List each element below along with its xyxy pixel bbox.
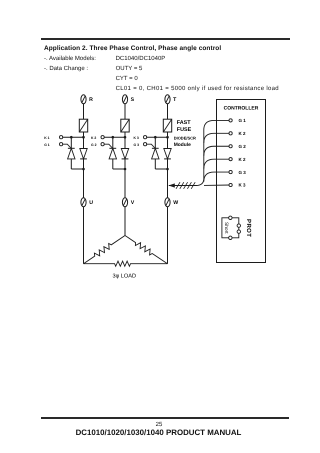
svg-text:V: V xyxy=(131,200,135,206)
svg-text:G 3: G 3 xyxy=(134,143,140,147)
terminal K3 xyxy=(144,136,147,139)
resistor load U-V leg xyxy=(84,236,126,264)
terminal U xyxy=(81,198,86,207)
wire node to diode D2 xyxy=(124,137,126,148)
resistor load U-W leg xyxy=(84,261,168,266)
junction dot bottom U xyxy=(82,168,85,171)
svg-text:K 2: K 2 xyxy=(239,157,247,162)
svg-text:PROT: PROT xyxy=(245,219,252,237)
svg-text:G 1: G 1 xyxy=(239,118,247,123)
body text rows xyxy=(44,56,96,62)
fuse F1 xyxy=(79,119,87,132)
wire junction to thyristor Q3 xyxy=(154,137,156,148)
svg-text:Module: Module xyxy=(174,142,191,148)
terminal K1 xyxy=(60,136,63,139)
wire node to diode D1 xyxy=(83,137,85,148)
terminal PROT 1 xyxy=(237,224,240,227)
wire Q3 to bottom connector xyxy=(154,159,156,169)
fuse F3 xyxy=(163,119,171,132)
diode D1 xyxy=(80,149,87,159)
junction node dot phase R xyxy=(82,136,85,139)
svg-text:CONTROLLER: CONTROLLER xyxy=(224,106,259,112)
terminal controller G3 xyxy=(229,170,232,173)
wire W to load xyxy=(167,207,169,264)
svg-text:K 2: K 2 xyxy=(239,131,247,136)
terminal T xyxy=(165,95,170,104)
terminal R xyxy=(81,95,86,104)
terminal controller K3 xyxy=(229,183,232,186)
svg-text:DIODE/SCR: DIODE/SCR xyxy=(174,135,196,140)
thyristor Q3 xyxy=(152,148,159,159)
svg-text:FAST: FAST xyxy=(177,120,191,126)
terminal S xyxy=(122,95,127,104)
wire module to terminal W xyxy=(167,169,169,198)
terminal controller K2 xyxy=(229,132,232,135)
wire gate G3 to thyristor Q3 xyxy=(147,144,155,148)
bottom rule xyxy=(41,417,289,418)
terminal short bottom xyxy=(229,236,232,239)
wire controller G3 cable xyxy=(204,172,231,182)
wire F3 to node xyxy=(167,132,169,137)
wire bottom connector W xyxy=(155,168,167,170)
thyristor Q1 xyxy=(68,148,75,159)
short link box xyxy=(222,218,239,238)
wire bottom connector V xyxy=(113,168,125,170)
wire D1 down to node U xyxy=(83,159,85,169)
fuse F2 xyxy=(121,119,129,132)
wire junction to thyristor Q2 xyxy=(112,137,114,148)
junction node dot phase T xyxy=(166,136,169,139)
terminal PROT 2 xyxy=(237,230,240,233)
svg-text:K 2: K 2 xyxy=(91,136,96,140)
terminal G3 xyxy=(144,143,147,146)
title xyxy=(44,46,221,53)
svg-text:G 2: G 2 xyxy=(239,144,247,149)
controller box xyxy=(217,100,266,263)
wire module to terminal V xyxy=(124,169,126,198)
svg-text:R: R xyxy=(89,97,93,103)
terminal G2 xyxy=(101,143,104,146)
label FAST FUSE xyxy=(177,120,192,133)
svg-text:G 1: G 1 xyxy=(44,143,50,147)
wire controller K2 cable xyxy=(204,133,231,143)
wire T to fuse F3 xyxy=(167,104,169,119)
thyristor Q2 xyxy=(109,148,116,159)
cable hatch marks xyxy=(176,182,195,189)
terminal V xyxy=(122,198,127,207)
svg-text:T: T xyxy=(173,97,177,103)
terminal K2 xyxy=(101,136,104,139)
wire V to load xyxy=(124,207,126,236)
wire D3 down to node W xyxy=(167,159,169,169)
wire junction to thyristor Q1 xyxy=(70,137,72,148)
terminal controller G2 xyxy=(229,145,232,148)
page number xyxy=(0,422,318,428)
wire node to diode D3 xyxy=(167,137,169,148)
junction dot bottom W xyxy=(166,168,169,171)
terminal controller K2 xyxy=(229,158,232,161)
diode D2 xyxy=(121,149,128,159)
wire controller G1 cable xyxy=(169,120,231,185)
svg-text:3φ LOAD: 3φ LOAD xyxy=(113,274,137,280)
wire module to terminal U xyxy=(83,169,85,198)
svg-text:G 3: G 3 xyxy=(239,170,247,175)
wire S to fuse F2 xyxy=(124,104,126,119)
terminal controller G1 xyxy=(229,119,232,122)
wire node to terminal K3 xyxy=(147,136,168,138)
junction dot left branch R xyxy=(70,136,73,139)
wire controller K2 cable xyxy=(204,159,231,169)
svg-text:G 2: G 2 xyxy=(91,143,97,147)
diode D3 xyxy=(164,149,171,159)
wire U to load xyxy=(83,207,85,264)
svg-text:W: W xyxy=(173,200,178,206)
svg-text:FUSE: FUSE xyxy=(177,127,192,133)
svg-text:S: S xyxy=(131,97,135,103)
junction dot bottom V xyxy=(124,168,127,171)
wire D2 down to node V xyxy=(124,159,126,169)
wire R to fuse F1 xyxy=(83,104,85,119)
label DIODE/SCR Module xyxy=(174,135,196,148)
wire Q2 to bottom connector xyxy=(112,159,114,169)
junction dot left branch T xyxy=(154,136,157,139)
wire Q1 to bottom connector xyxy=(70,159,72,169)
wire controller K3 cable xyxy=(204,184,231,186)
terminal W xyxy=(165,198,170,207)
resistor load V-W leg xyxy=(125,236,168,264)
wire controller G2 cable xyxy=(204,146,231,156)
svg-text:U: U xyxy=(89,200,93,206)
wire gate G2 to thyristor Q2 xyxy=(104,144,112,148)
footer title xyxy=(0,429,317,437)
wire F2 to node xyxy=(124,132,126,137)
terminal G1 xyxy=(60,143,63,146)
svg-text:K 1: K 1 xyxy=(44,136,49,140)
svg-text:K 3: K 3 xyxy=(239,183,247,188)
wire node to terminal K1 xyxy=(63,136,84,138)
junction dot left branch S xyxy=(112,136,115,139)
wire node to terminal K2 xyxy=(104,136,125,138)
terminal short top xyxy=(229,216,232,219)
top rule xyxy=(41,38,290,40)
svg-text:Short: Short xyxy=(223,222,229,234)
wire bottom connector U xyxy=(71,168,83,170)
svg-text:K 3: K 3 xyxy=(134,136,139,140)
wire gate G1 to thyristor Q1 xyxy=(63,144,71,148)
wire F1 to node xyxy=(83,132,85,137)
cable bundle arrowhead xyxy=(169,183,175,187)
junction node dot phase S xyxy=(124,136,127,139)
